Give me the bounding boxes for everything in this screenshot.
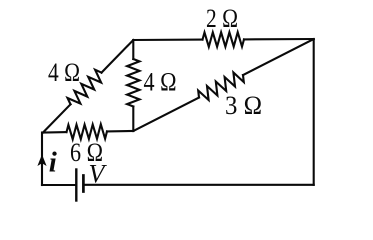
- wire R5 to D: [243, 39, 314, 75]
- battery V short plate: [82, 176, 85, 192]
- wire C to R2: [133, 39, 202, 42]
- resistor R1 4ohm zigzag (diagonal A-C): [68, 70, 102, 105]
- resistor R5 3ohm zigzag (B-D): [198, 73, 244, 101]
- battery V long plate: [75, 170, 77, 201]
- wire R4 to B: [107, 130, 133, 132]
- resistor R3 4ohm zigzag (vertical C-B): [127, 59, 139, 107]
- wire B to R5: [133, 98, 199, 132]
- svg-text:2 Ω: 2 Ω: [206, 4, 238, 33]
- wire right vertical F-D: [313, 39, 315, 185]
- wire battery to F: [84, 184, 313, 186]
- wire left vertical A-E: [41, 133, 43, 186]
- svg-text:i: i: [49, 147, 57, 179]
- wire R1 to C: [102, 40, 134, 73]
- wire R2 to D: [244, 38, 314, 41]
- svg-text:6 Ω: 6 Ω: [70, 138, 103, 167]
- svg-text:4 Ω: 4 Ω: [48, 58, 80, 87]
- svg-text:3 Ω: 3 Ω: [225, 91, 262, 120]
- wire A to R1: [43, 104, 71, 132]
- svg-text:4 Ω: 4 Ω: [144, 68, 177, 97]
- wire A to R4: [43, 131, 67, 133]
- wire C to R3: [132, 40, 134, 59]
- resistor R2 2ohm zigzag (top C-D): [203, 32, 245, 47]
- resistor R4 6ohm zigzag (A-B): [67, 124, 108, 139]
- current arrow i (pointing up on left wire): [37, 154, 46, 166]
- wire R3 to B: [132, 107, 134, 132]
- wire bottom E to battery: [42, 184, 75, 186]
